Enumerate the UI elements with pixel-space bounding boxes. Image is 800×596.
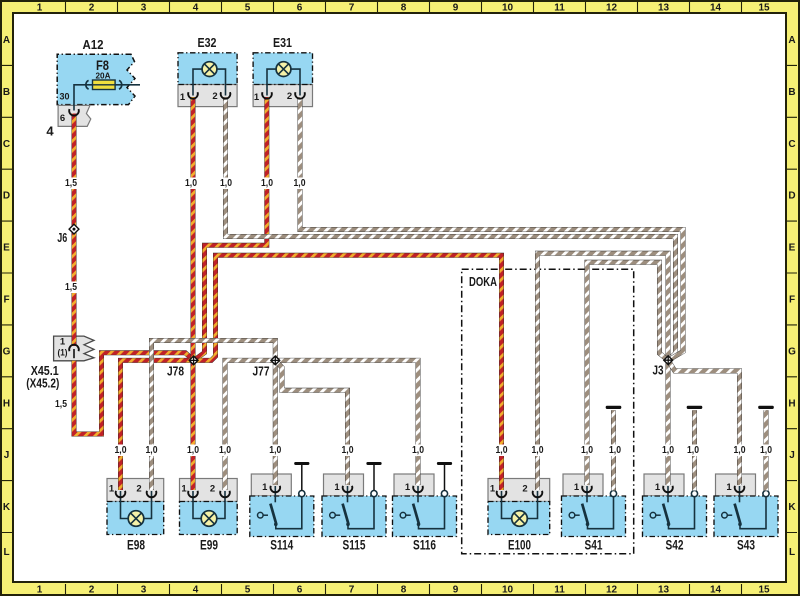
svg-text:1,0: 1,0: [609, 445, 621, 456]
svg-text:10: 10: [502, 585, 514, 596]
svg-text:2: 2: [522, 484, 527, 495]
svg-text:S42: S42: [666, 537, 684, 553]
svg-text:L: L: [3, 547, 9, 558]
svg-text:J6: J6: [57, 230, 67, 245]
svg-text:1: 1: [60, 337, 66, 348]
svg-text:J: J: [789, 450, 795, 461]
svg-text:1,0: 1,0: [115, 445, 127, 456]
svg-text:6: 6: [60, 113, 65, 124]
svg-text:S114: S114: [270, 537, 293, 553]
svg-text:S116: S116: [413, 537, 436, 553]
svg-text:15: 15: [758, 3, 770, 14]
svg-text:(X45.2): (X45.2): [26, 377, 59, 391]
svg-text:S41: S41: [585, 537, 603, 553]
svg-text:E98: E98: [127, 537, 145, 553]
svg-text:8: 8: [401, 3, 407, 14]
svg-text:2: 2: [89, 3, 95, 14]
svg-text:5: 5: [245, 585, 251, 596]
svg-text:J78: J78: [167, 364, 184, 379]
svg-text:11: 11: [554, 585, 565, 596]
svg-text:H: H: [3, 398, 10, 409]
svg-text:1,0: 1,0: [146, 445, 158, 456]
svg-text:12: 12: [606, 3, 618, 14]
svg-text:1,0: 1,0: [342, 445, 354, 456]
svg-text:30: 30: [60, 92, 70, 103]
svg-text:J: J: [4, 450, 10, 461]
svg-text:2: 2: [210, 484, 215, 495]
svg-text:2: 2: [89, 585, 95, 596]
svg-text:1,0: 1,0: [662, 445, 674, 456]
svg-text:D: D: [788, 191, 795, 202]
svg-text:1: 1: [405, 482, 411, 493]
svg-text:20A: 20A: [96, 71, 111, 81]
svg-text:DOKA: DOKA: [469, 274, 497, 289]
svg-text:4: 4: [193, 3, 199, 14]
svg-text:B: B: [788, 87, 795, 98]
svg-text:3: 3: [141, 3, 147, 14]
svg-text:7: 7: [349, 3, 355, 14]
svg-text:S115: S115: [343, 537, 366, 553]
svg-text:1: 1: [37, 585, 43, 596]
svg-text:4: 4: [46, 124, 54, 139]
svg-text:1: 1: [254, 92, 260, 103]
svg-text:1,0: 1,0: [496, 445, 508, 456]
svg-text:F: F: [3, 295, 9, 306]
svg-text:8: 8: [401, 585, 407, 596]
svg-text:E: E: [789, 243, 796, 254]
svg-text:1,0: 1,0: [581, 445, 593, 456]
svg-text:10: 10: [502, 3, 514, 14]
svg-text:B: B: [3, 87, 10, 98]
svg-text:1,0: 1,0: [187, 445, 199, 456]
svg-text:1,0: 1,0: [687, 445, 699, 456]
svg-text:1: 1: [726, 482, 732, 493]
svg-text:G: G: [3, 346, 11, 357]
svg-text:14: 14: [710, 3, 722, 14]
svg-text:2: 2: [287, 91, 292, 102]
svg-text:1,0: 1,0: [185, 178, 197, 189]
svg-text:A12: A12: [83, 37, 104, 52]
svg-text:1,0: 1,0: [734, 445, 746, 456]
svg-text:1,0: 1,0: [220, 178, 232, 189]
svg-text:12: 12: [606, 585, 618, 596]
svg-text:E32: E32: [198, 35, 217, 50]
svg-text:1: 1: [37, 3, 43, 14]
svg-text:C: C: [788, 139, 795, 150]
svg-text:6: 6: [297, 3, 303, 14]
svg-text:1: 1: [574, 482, 580, 493]
svg-text:1,0: 1,0: [532, 445, 544, 456]
svg-text:1,0: 1,0: [294, 178, 306, 189]
svg-text:4: 4: [193, 585, 199, 596]
svg-text:11: 11: [554, 3, 565, 14]
svg-text:1: 1: [334, 482, 340, 493]
svg-text:1: 1: [180, 92, 186, 103]
svg-text:E100: E100: [508, 537, 531, 553]
svg-text:E31: E31: [273, 35, 292, 50]
svg-text:1,0: 1,0: [269, 445, 281, 456]
svg-text:7: 7: [349, 585, 355, 596]
svg-text:9: 9: [453, 3, 459, 14]
svg-text:1,5: 1,5: [65, 282, 77, 293]
svg-text:1: 1: [655, 482, 661, 493]
svg-text:K: K: [3, 502, 11, 513]
svg-text:F: F: [789, 295, 795, 306]
svg-text:1: 1: [262, 482, 268, 493]
svg-text:A: A: [788, 35, 795, 46]
svg-text:S43: S43: [737, 537, 755, 553]
svg-text:E: E: [3, 243, 10, 254]
svg-text:6: 6: [297, 585, 303, 596]
svg-text:1,0: 1,0: [412, 445, 424, 456]
svg-text:1: 1: [181, 484, 187, 495]
svg-text:5: 5: [245, 3, 251, 14]
svg-text:15: 15: [758, 585, 770, 596]
svg-text:1,0: 1,0: [261, 178, 273, 189]
svg-text:1,0: 1,0: [219, 445, 231, 456]
svg-text:G: G: [788, 346, 796, 357]
svg-text:J3: J3: [653, 363, 664, 378]
svg-text:D: D: [3, 191, 10, 202]
svg-text:L: L: [789, 547, 795, 558]
svg-text:9: 9: [453, 585, 459, 596]
svg-text:2: 2: [136, 484, 141, 495]
svg-text:3: 3: [141, 585, 147, 596]
svg-text:A: A: [3, 35, 10, 46]
svg-text:14: 14: [710, 585, 722, 596]
svg-text:1,0: 1,0: [760, 445, 772, 456]
svg-text:K: K: [788, 502, 796, 513]
svg-text:(1): (1): [58, 348, 68, 359]
svg-text:13: 13: [658, 3, 670, 14]
svg-text:E99: E99: [200, 537, 218, 553]
svg-text:2: 2: [212, 91, 217, 102]
svg-text:J77: J77: [253, 364, 270, 379]
svg-text:1: 1: [490, 484, 496, 495]
svg-text:C: C: [3, 139, 10, 150]
svg-text:1,5: 1,5: [65, 178, 77, 189]
svg-text:1: 1: [109, 484, 115, 495]
svg-text:1,5: 1,5: [55, 399, 67, 410]
svg-text:H: H: [788, 398, 795, 409]
svg-text:13: 13: [658, 585, 670, 596]
